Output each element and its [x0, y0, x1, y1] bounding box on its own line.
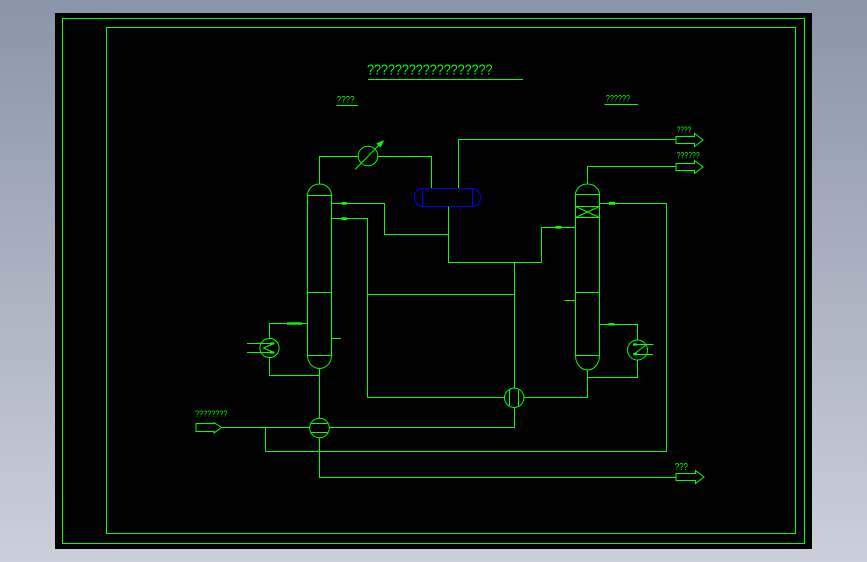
arrow out2: [676, 161, 703, 174]
column T1: [308, 184, 332, 369]
wire T2 to reboiler E3: [600, 325, 638, 341]
svg-text:??????????????????: ??????????????????: [367, 63, 493, 79]
title underline: [368, 79, 523, 81]
wire condenser to drum V1: [378, 157, 432, 189]
label underline right: [605, 104, 639, 106]
wire bottoms product line: [320, 438, 677, 478]
svg-text:???: ???: [675, 462, 689, 473]
wire pump right to T2 bottoms: [524, 370, 588, 398]
wire column T2 top to arrow out2: [588, 167, 677, 185]
wire T1 nozzle2 down to pump suction: [332, 219, 368, 398]
wire feed arrow to mixer: [222, 427, 310, 429]
reflux drum V1: [415, 189, 481, 207]
condenser E1: [355, 141, 383, 170]
reboiler E2: [247, 338, 279, 357]
flange F4: [556, 226, 562, 229]
flange F3: [287, 322, 302, 324]
column T2: [576, 184, 600, 370]
reboiler E3: [628, 340, 654, 360]
wire drum V1 top to arrow out1: [459, 140, 677, 189]
wire reboiler E2 to T1 bottom: [270, 358, 320, 376]
flange F5: [609, 202, 615, 205]
flange F6: [609, 323, 615, 325]
wire drum bottom to T2 feed: [449, 207, 576, 263]
arrow out3: [676, 471, 704, 484]
stub T1 right: [332, 338, 342, 340]
feed arrow in: [196, 423, 222, 434]
wire T1 to reboiler E2: [270, 324, 308, 339]
wire suction drop to pump P1: [514, 263, 516, 389]
mixer M1: [310, 418, 330, 438]
wire pump left inlet: [368, 397, 505, 399]
flange F1: [342, 202, 348, 205]
arrow out1: [676, 134, 703, 147]
pump P1: [505, 388, 524, 407]
wire pump bottom to mixer M1: [329, 407, 515, 427]
flange F2: [342, 217, 348, 220]
svg-text:????: ????: [677, 125, 692, 134]
svg-text:??????: ??????: [606, 93, 630, 104]
svg-text:????: ????: [337, 95, 355, 106]
wire column T1 top to condenser: [320, 157, 359, 185]
svg-text:??????: ??????: [677, 151, 700, 160]
svg-text:????????: ????????: [195, 408, 228, 418]
wire T1 bottom to mixer M1: [319, 369, 321, 419]
wire recycle line: [266, 204, 667, 452]
wire cross link: [368, 294, 515, 296]
wire T1 nozzle1 to drum bottom line: [332, 204, 449, 235]
wire reboiler E3 to T2 bottom: [588, 360, 638, 378]
label underline left: [337, 105, 359, 107]
stub T2 left: [565, 300, 576, 302]
